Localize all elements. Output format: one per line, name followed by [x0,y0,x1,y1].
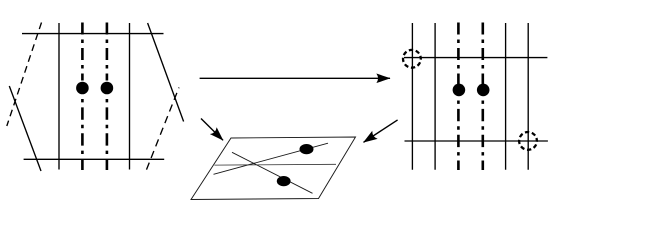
left web: bottom horizontal edge [24,158,165,160]
right grid: vertical line 1 [411,23,413,170]
right grid: bottom horizontal line [405,140,548,142]
dashed circle at top-left intersection [403,50,421,68]
left web: filled dot 2 [101,82,114,95]
left web: dash-dot vertical brane 1 (upper part) [81,23,84,81]
left web: vertical line 1 [58,23,60,170]
plane line C [214,163,336,166]
left web: filled dot 1 [76,82,89,95]
left web: dash-dot vertical brane 2 (lower part) [106,99,109,170]
right grid: filled dot 2 [477,84,490,97]
right grid: vertical line 3 [505,23,507,170]
right grid: dash-dot vertical brane 1 (upper part) [457,23,460,85]
plane lower dot [277,176,291,186]
left web: top horizontal edge [22,33,164,35]
down-right arrow [201,119,223,141]
right grid: top horizontal line [404,57,547,59]
left web: dash-dot vertical brane 2 (upper part) [106,23,109,81]
left web: vertical line 2 [129,23,131,170]
right grid: dash-dot vertical brane 2 (upper part) [481,23,484,85]
plane parallelogram [191,137,356,200]
plane line A [214,143,329,174]
left web: upper-right solid edge [148,23,184,122]
left web: dash-dot vertical brane 1 (lower part) [81,99,84,170]
left web: lower-left solid edge [9,86,41,171]
horizontal arrow [200,77,390,79]
right grid: filled dot 1 [453,84,466,97]
plane upper dot [300,144,314,154]
left web: lower-right dashed edge [147,88,180,170]
right grid: dash-dot vertical brane 1 (lower part) [457,101,460,171]
right grid: vertical line 4 [527,23,529,170]
plane line B [232,152,313,193]
down-left arrow [364,120,398,142]
dashed circle at bottom-right intersection [519,132,537,150]
left web: upper-left dashed edge [7,23,42,127]
right grid: vertical line 2 [434,23,436,170]
right grid: dash-dot vertical brane 2 (lower part) [481,101,484,171]
